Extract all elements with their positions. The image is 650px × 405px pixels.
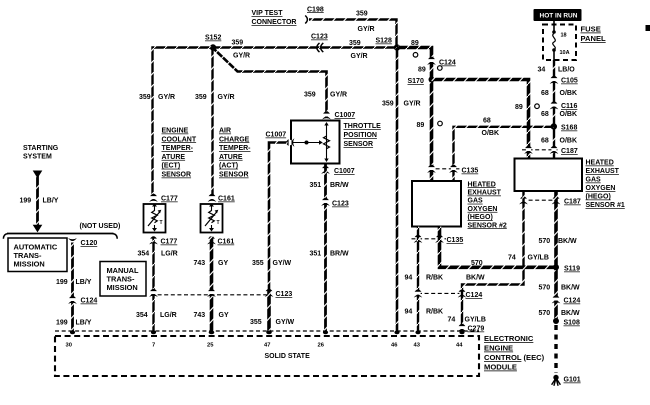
svg-text:R/BK: R/BK [426,309,443,316]
svg-text:359: 359 [139,94,151,101]
svg-text:TEMPER-: TEMPER- [162,145,194,152]
label 199 LB/Y [56,279,92,286]
svg-text:EXHAUST: EXHAUST [586,168,620,175]
connector C124 (left column) [68,296,97,305]
connector C120 [68,238,97,247]
svg-text:C161: C161 [218,196,235,203]
connector C161 (top) [208,194,235,203]
svg-text:C123: C123 [311,34,328,41]
svg-text:HEATED: HEATED [468,181,496,188]
svg-text:BR/W: BR/W [330,182,349,189]
svg-text:HEATED: HEATED [586,160,614,167]
svg-text:PANEL: PANEL [581,34,607,43]
svg-text:GY/LB: GY/LB [528,255,549,262]
connector C198 [305,6,324,23]
label 199 LB/Y [20,198,59,205]
connector C135 (bottom dashed) [412,235,464,244]
svg-text:GY/LB: GY/LB [465,317,486,324]
svg-text:O/BK: O/BK [482,130,500,137]
wire to ground (dashed) [554,325,557,373]
svg-text:7: 7 [152,343,155,349]
box HEATED EXHAUST GAS OXYGEN SENSOR 1 [515,159,583,192]
svg-text:89: 89 [515,104,523,111]
svg-text:359: 359 [304,92,316,99]
svg-text:S168: S168 [561,125,577,132]
svg-text:GAS: GAS [468,198,484,205]
svg-text:LB/Y: LB/Y [76,320,92,327]
label 359 GY/R (ECT column) [139,94,175,101]
svg-text:LG/R: LG/R [161,251,178,258]
svg-text:GY: GY [219,312,229,319]
svg-text:199: 199 [20,198,32,205]
label ENGINE COOLANT TEMPERATURE (ECT) SENSOR [162,128,197,179]
label VIP TEST CONNECTOR [252,10,297,26]
connector C1007 (TPS bottom) [321,166,355,175]
svg-text:C116: C116 [561,103,577,110]
label 359 GY/R [349,40,368,60]
svg-text:C124: C124 [466,292,483,299]
wire 355 GY/W from TPS wiper down [269,143,288,294]
splice S128 [376,38,401,51]
svg-text:G101: G101 [564,377,581,384]
svg-text:O/BK: O/BK [560,111,578,118]
svg-text:30: 30 [66,343,72,349]
box ELECTRONIC ENGINE CONTROL (EEC) MODULE [55,331,479,376]
svg-text:ATURE: ATURE [162,154,186,161]
edge mark artifact [646,25,650,31]
svg-text:FUSE: FUSE [581,25,601,34]
label 94 R/BK [405,275,444,282]
svg-text:MISSION: MISSION [14,260,45,269]
box MANUAL TRANSMISSION [100,262,146,297]
wire 359 GY/R from S152 to TPS [214,49,327,118]
connector C123 (top) [311,34,328,53]
svg-text:R/BK: R/BK [426,275,443,282]
label 570 BK/W (horizontal) [466,260,485,282]
connector C116 [550,101,578,110]
fuse panel box [543,25,606,61]
svg-text:STARTING: STARTING [23,145,59,152]
svg-text:C187: C187 [564,199,581,206]
svg-text:GY/R: GY/R [158,94,175,101]
wire 354 LG/R to EEC pin 7 [152,237,154,333]
box AUTOMATIC TRANSMISSION [8,238,67,272]
svg-text:LG/R: LG/R [160,312,177,319]
label 570 BK/W [539,285,581,292]
svg-text:570: 570 [539,310,551,317]
svg-text:CONNECTOR: CONNECTOR [252,19,297,26]
svg-text:C124: C124 [81,298,98,305]
connector C123 (middle dashed line) [149,289,292,298]
svg-text:TEMPER-: TEMPER- [219,145,251,152]
connector C124 (middle dashed) [414,289,483,299]
svg-text:MISSION: MISSION [107,283,138,292]
svg-text:GY/R: GY/R [233,53,250,60]
node bus bar (not used) [3,234,117,239]
label 74 GY/LB lower [448,317,486,324]
svg-text:S128: S128 [376,38,392,45]
label 199 LB/Y lower [56,320,92,327]
svg-text:C1007: C1007 [266,132,287,139]
connector C124 (right column) [552,295,581,304]
label HEATED EXHAUST GAS OXYGEN (HEGO) SENSOR #2 [468,181,507,229]
svg-text:THROTTLE: THROTTLE [344,123,382,130]
svg-text:ENGINE: ENGINE [162,128,189,135]
label 351 BR/W lower [310,251,350,258]
svg-text:47: 47 [264,343,270,349]
label 743 GY [194,260,229,267]
svg-text:359: 359 [356,11,368,18]
label AIR CHARGE TEMPERATURE (ACT) SENSOR [219,128,251,179]
svg-text:68: 68 [483,118,491,125]
svg-text:CONTROL (EEC): CONTROL (EEC) [484,353,545,362]
svg-text:351: 351 [310,182,322,189]
connector C135 (top dashed) [427,165,478,175]
svg-text:SOLID STATE: SOLID STATE [265,353,311,360]
svg-text:GY/R: GY/R [351,53,368,60]
svg-text:SYSTEM: SYSTEM [23,154,52,161]
svg-text:GY/R: GY/R [358,26,375,33]
svg-text:S108: S108 [564,320,580,327]
svg-text:LB/Y: LB/Y [43,198,59,205]
ground G101 [552,375,581,386]
label 68 O/BK [541,138,577,145]
wire 570 BK/W from HEGO sensor 2 to S119 [440,227,557,268]
svg-text:C1007: C1007 [335,112,356,119]
node option circle [438,121,443,126]
svg-text:SENSOR: SENSOR [162,172,192,179]
svg-text:354: 354 [136,312,148,319]
label 359 GY/R [232,40,251,60]
splice S119 [553,264,580,272]
svg-text:C177: C177 [161,239,178,246]
label 68 O/BK [541,90,577,97]
wire 34 LB/O fuse output [553,60,555,159]
label 74 GY/LB [508,255,549,262]
label 351 BR/W [310,182,350,189]
svg-text:(HEGO): (HEGO) [586,194,611,201]
svg-text:74: 74 [448,317,456,324]
node option circle [535,104,540,109]
connector C123 (on 351 wire) [321,198,349,208]
svg-text:C123: C123 [332,201,349,208]
label HEATED EXHAUST GAS OXYGEN (HEGO) SENSOR #1 [586,160,625,210]
svg-text:18: 18 [561,33,567,39]
svg-text:GY/R: GY/R [218,94,235,101]
svg-text:SENSOR #1: SENSOR #1 [586,202,625,209]
wire 89 from S170 to HEGO sensor 1 [432,80,529,159]
svg-text:94: 94 [405,309,413,316]
svg-text:570: 570 [471,260,483,267]
svg-text:EXHAUST: EXHAUST [468,190,502,197]
svg-text:89: 89 [417,122,425,129]
svg-text:BK/W: BK/W [561,285,580,292]
svg-text:(HEGO): (HEGO) [468,214,493,221]
label 354 LG/R [138,251,178,258]
svg-text:743: 743 [194,312,206,319]
svg-text:VIP TEST: VIP TEST [252,10,284,17]
connector C279 [458,324,485,333]
node option circle [413,53,418,58]
svg-text:359: 359 [382,101,394,108]
connector C161 (bottom) [207,236,234,245]
svg-text:C124: C124 [564,298,581,305]
connector C124 (top right) [427,57,456,67]
svg-text:GAS: GAS [586,177,602,184]
label 68 O/BK (branch) [482,118,500,138]
svg-text:SENSOR: SENSOR [219,172,249,179]
connector C177 (bottom) [149,236,177,245]
wire 94 R/BK to EEC pin 43 [417,227,419,333]
svg-text:HOT IN RUN: HOT IN RUN [540,13,578,20]
svg-text:COOLANT: COOLANT [162,136,197,143]
svg-text:MODULE: MODULE [484,363,517,372]
connector C177 (top) [149,194,178,203]
label ELECTRONIC ENGINE CONTROL (EEC) MODULE [484,334,545,372]
svg-text:46: 46 [391,343,398,349]
svg-text:351: 351 [310,251,322,258]
svg-text:BK/W: BK/W [561,310,580,317]
label 359 GY/R (ACT column) [195,94,235,101]
svg-text:S152: S152 [205,35,221,42]
label 94 R/BK lower [405,309,444,316]
svg-text:C177: C177 [161,196,178,203]
wire 351 BR/W from TPS to EEC pin 26 [324,165,327,333]
wire 359 GY/R from VIP test connector to S128 [309,20,397,46]
svg-text:GY: GY [218,260,228,267]
svg-text:ATURE: ATURE [219,154,243,161]
connector C187 (top dashed) [522,146,578,155]
splice S170 [408,77,435,86]
wire 89 from S128 down to HEGO sensor 2 [398,48,432,182]
svg-text:355: 355 [250,319,262,326]
splice S108 [553,318,580,327]
svg-text:359: 359 [232,40,244,47]
svg-text:570: 570 [539,238,551,245]
wire 199 LB/Y from starting system [33,171,43,233]
svg-text:CHARGE: CHARGE [219,136,250,143]
svg-text:68: 68 [541,111,549,118]
node option circle [438,66,443,71]
label 359 GY/R (pin 46 wire) [382,101,421,108]
splice S168 [551,123,578,131]
svg-text:POSITION: POSITION [344,132,377,139]
wire 743 GY to EEC pin 25 [210,237,214,333]
svg-text:89: 89 [418,67,426,74]
connector C1007 (TPS left, wiper) [266,132,295,147]
svg-text:C187: C187 [561,148,578,155]
label 34 LB/O [538,67,576,74]
svg-text:570: 570 [539,285,551,292]
splice S152 [205,35,221,51]
svg-text:359: 359 [349,40,361,47]
wire 359 GY/R from S128 down to EEC pin 46 [396,48,399,333]
svg-text:C1007: C1007 [334,168,355,175]
wire 359 GY/R row S152 to S128 and down to ECT [153,48,397,198]
svg-text:355: 355 [252,260,264,267]
svg-text:44: 44 [456,343,463,349]
svg-text:34: 34 [538,67,546,74]
sensor ACT (thermistor) [201,204,223,233]
svg-text:743: 743 [194,260,206,267]
label 355 GY/W [252,260,292,267]
svg-text:94: 94 [405,275,413,282]
connector C1007 (TPS top) [322,111,355,119]
svg-text:68: 68 [541,90,549,97]
svg-text:43: 43 [414,343,421,349]
label 68 O/BK [541,111,577,118]
label 354 LG/R lower [136,312,177,319]
svg-text:C161: C161 [218,239,235,246]
wire 570 BK/W right column from HEGO sensor 1 [554,191,558,323]
svg-text:C124: C124 [439,60,456,67]
connector C105 [550,76,578,85]
svg-text:S119: S119 [564,266,580,273]
label STARTING SYSTEM [23,145,59,161]
svg-text:BK/W: BK/W [466,275,485,282]
svg-text:359: 359 [195,94,207,101]
svg-text:C135: C135 [447,237,464,244]
wire 355 GY/W lower to EEC pin 47 [267,291,271,332]
label 359 GY/R (TPS feed) [304,92,347,99]
svg-text:74: 74 [508,255,516,262]
label 570 BK/W [539,238,578,245]
svg-text:C135: C135 [462,168,479,175]
svg-text:ELECTRONIC: ELECTRONIC [484,334,534,343]
connector C187 (bottom dashed) [519,196,581,205]
svg-text:ENGINE: ENGINE [484,344,513,353]
fuse 18 (10A) [552,21,569,60]
svg-text:C120: C120 [81,240,98,247]
svg-text:AIR: AIR [219,128,231,135]
svg-text:S170: S170 [408,78,424,85]
svg-text:GY/W: GY/W [276,319,295,326]
svg-text:C123: C123 [276,291,293,298]
svg-text:(ECT): (ECT) [162,163,181,170]
svg-text:C279: C279 [468,326,485,333]
svg-text:BK/W: BK/W [558,238,577,245]
svg-text:T: T [217,220,220,226]
svg-text:GY/R: GY/R [404,101,421,108]
svg-text:SENSOR: SENSOR [344,141,374,148]
label THROTTLE POSITION SENSOR [344,123,382,148]
label HOT IN RUN [534,9,582,21]
wire 199 LB/Y left column to EEC pin 30 [71,243,74,333]
svg-text:68: 68 [541,138,549,145]
wire 74 GY/LB from HEGO sensor 1 to EEC pin 44 [462,191,524,332]
svg-text:GY/R: GY/R [330,92,347,99]
svg-text:89: 89 [411,40,419,47]
svg-text:C105: C105 [561,78,578,85]
box HEATED EXHAUST GAS OXYGEN SENSOR 2 [412,181,461,227]
svg-text:T: T [160,220,163,226]
svg-text:25: 25 [207,343,214,349]
svg-text:LB/Y: LB/Y [76,279,92,286]
svg-text:(ACT): (ACT) [219,163,238,170]
svg-text:BR/W: BR/W [330,251,349,258]
pin terminal flares [70,331,465,335]
svg-text:SENSOR #2: SENSOR #2 [468,222,507,229]
svg-text:354: 354 [138,251,150,258]
svg-text:C198: C198 [307,6,324,13]
svg-text:LB/O: LB/O [558,67,575,74]
svg-text:O/BK: O/BK [560,90,578,97]
wire 68 O/BK branch from S168 to HEGO sensor 2 [454,127,554,181]
wire 359 GY/R ACT column [211,48,213,198]
svg-text:OXYGEN: OXYGEN [586,185,616,192]
label 355 GY/W lower [250,319,295,326]
svg-text:O/BK: O/BK [560,138,578,145]
label 570 BK/W [539,310,581,317]
svg-text:10A: 10A [560,50,570,56]
svg-text:GY/W: GY/W [273,260,292,267]
label 359 GY/R [356,11,375,34]
svg-text:199: 199 [56,320,68,327]
svg-text:199: 199 [56,279,68,286]
svg-text:OXYGEN: OXYGEN [468,206,498,213]
op box THROTTLE POSITION SENSOR [291,121,340,164]
label 743 GY lower [194,312,229,319]
svg-text:26: 26 [318,343,325,349]
sensor ECT (thermistor) [144,204,166,233]
svg-text:(NOT USED): (NOT USED) [80,223,121,230]
